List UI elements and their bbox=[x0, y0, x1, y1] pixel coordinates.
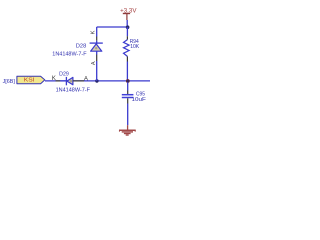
svg-text:1N4148W-7-F: 1N4148W-7-F bbox=[56, 87, 90, 93]
resistor R94 pin stub bottom bbox=[126, 56, 128, 61]
diode D28 pin stub top bbox=[96, 37, 98, 41]
wire capacitor to ground bbox=[127, 104, 129, 126]
capacitor C95 pin stub top bbox=[127, 82, 129, 90]
resistor R94 zigzag bbox=[124, 40, 130, 57]
diode D29 symbol bbox=[66, 77, 73, 85]
capacitor C95 pin stub bottom bbox=[127, 98, 129, 103]
wire bottom horizontal bbox=[45, 80, 150, 82]
diode D29 pin stub left bbox=[56, 80, 61, 82]
junction dot diode branch bbox=[95, 79, 98, 82]
svg-text:10uF: 10uF bbox=[132, 97, 146, 103]
ground symbol bbox=[119, 125, 136, 135]
wire vcc stem to top rail bbox=[126, 20, 128, 27]
wire left branch vertical bbox=[96, 27, 98, 37]
diode D28 pin stub bottom bbox=[96, 51, 98, 54]
power symbol stem bbox=[126, 14, 128, 21]
svg-text:1N4148W-7-F: 1N4148W-7-F bbox=[52, 52, 86, 58]
svg-text:A: A bbox=[91, 61, 97, 65]
junction dot bottom rail bbox=[126, 79, 130, 83]
wire top horizontal bbox=[97, 26, 128, 28]
svg-text:K: K bbox=[91, 30, 97, 34]
wire rail down to resistor bbox=[126, 27, 128, 36]
capacitor C95 plates bbox=[122, 95, 134, 98]
diode D29 pin stub right bbox=[73, 80, 84, 82]
wire resistor to bottom rail bbox=[126, 62, 128, 81]
svg-text:10K: 10K bbox=[130, 44, 140, 50]
power symbol bar bbox=[123, 13, 130, 15]
resistor R94 pin stub top bbox=[126, 36, 128, 39]
svg-text:KSI: KSI bbox=[24, 78, 35, 84]
wire diode D28 to bottom rail bbox=[96, 61, 98, 81]
svg-text:J[6B]: J[6B] bbox=[3, 79, 16, 85]
diode D28 symbol bbox=[90, 41, 103, 52]
junction dot top bbox=[126, 25, 130, 29]
connector flag body bbox=[17, 76, 45, 84]
svg-text:D29: D29 bbox=[59, 71, 69, 77]
svg-text:D28: D28 bbox=[76, 44, 87, 50]
